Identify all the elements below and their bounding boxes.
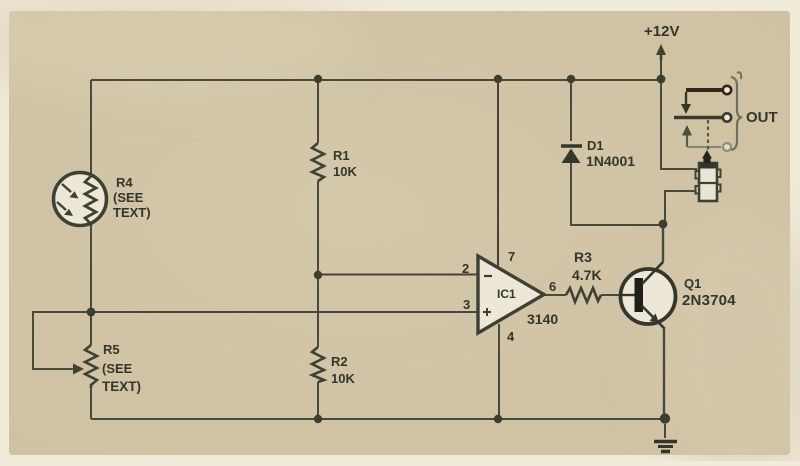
svg-text:7: 7 xyxy=(508,249,515,264)
svg-text:1N4001: 1N4001 xyxy=(586,153,635,169)
svg-text:R2: R2 xyxy=(331,354,348,369)
svg-text:10K: 10K xyxy=(333,164,357,179)
svg-text:3: 3 xyxy=(463,297,470,312)
svg-text:R3: R3 xyxy=(574,249,592,265)
svg-text:+12V: +12V xyxy=(644,23,679,40)
svg-text:D1: D1 xyxy=(587,138,604,153)
svg-text:Q1: Q1 xyxy=(684,276,701,291)
svg-text:OUT: OUT xyxy=(746,109,778,126)
svg-text:TEXT): TEXT) xyxy=(113,205,151,220)
svg-text:2N3704: 2N3704 xyxy=(682,292,736,309)
svg-text:R5: R5 xyxy=(103,342,120,357)
svg-text:4.7K: 4.7K xyxy=(572,267,602,283)
svg-text:4: 4 xyxy=(507,329,515,344)
svg-text:10K: 10K xyxy=(331,371,355,386)
svg-text:3140: 3140 xyxy=(527,311,558,327)
svg-text:(SEE: (SEE xyxy=(102,361,133,376)
svg-text:2: 2 xyxy=(462,261,469,276)
svg-text:TEXT): TEXT) xyxy=(102,379,141,394)
svg-text:(SEE: (SEE xyxy=(113,190,144,205)
svg-text:R4: R4 xyxy=(116,175,133,190)
svg-text:R1: R1 xyxy=(333,148,350,163)
svg-text:6: 6 xyxy=(549,279,556,294)
svg-text:IC1: IC1 xyxy=(497,287,516,301)
